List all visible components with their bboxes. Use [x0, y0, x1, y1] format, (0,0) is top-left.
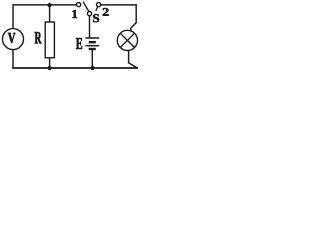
switch terminal label 2 — [103, 8, 109, 16]
battery E plate short bottom — [89, 48, 96, 50]
switch S terminal 2 contact tick — [96, 7, 97, 10]
switch S terminal 1 circle — [77, 3, 81, 7]
wire resistor branch top — [49, 5, 51, 22]
wire lamp bottom stub — [129, 50, 138, 68]
wire diagonal into lamp top — [131, 23, 136, 31]
wire resistor branch bottom — [49, 58, 51, 68]
battery E plate long top — [85, 37, 99, 39]
switch label S — [93, 14, 99, 22]
node junction dot at battery bottom — [90, 66, 94, 70]
battery label E — [76, 38, 82, 49]
switch S blade (open, tilted) — [83, 2, 88, 11]
switch terminal label 1 — [73, 10, 78, 18]
node junction dot at resistor bottom — [48, 66, 52, 70]
switch S pivot circle — [87, 12, 91, 16]
node junction dot at resistor top — [48, 3, 52, 7]
wire top rail right (terminal 2 to corner, down) — [101, 5, 136, 23]
voltmeter V1 circle — [3, 29, 24, 50]
resistor label R — [35, 32, 42, 43]
wire bottom rail — [13, 67, 137, 69]
wire battery bottom lead — [91, 50, 93, 68]
battery E plate long lower — [85, 45, 99, 47]
lamp circle — [117, 30, 137, 50]
lamp cross line 1 — [120, 33, 134, 47]
lamp cross line 2 — [120, 33, 134, 47]
wire battery top lead (switch pivot to battery) — [89, 16, 91, 37]
battery E plate short upper — [89, 41, 96, 43]
wire left vertical top (top rail corner down to voltmeter) — [13, 5, 76, 29]
switch S terminal 2 circle — [97, 3, 101, 7]
wire left vertical bottom (voltmeter to bottom rail) — [12, 50, 14, 68]
voltmeter label V — [8, 33, 15, 43]
resistor R body — [45, 22, 54, 58]
